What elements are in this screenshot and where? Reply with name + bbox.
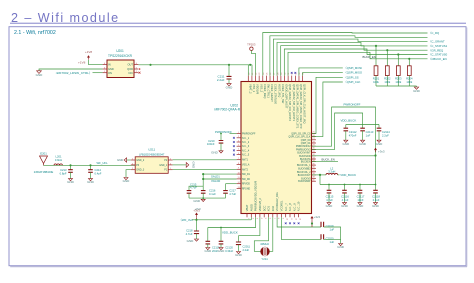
svg-text:1uF: 1uF <box>330 240 335 244</box>
wire +1V8 to IN <box>89 60 103 65</box>
label VDD_BUCK (inductor) <box>338 174 340 176</box>
svg-text:N/C: N/C <box>129 71 134 75</box>
balun U211 <box>135 157 168 174</box>
svg-text:GND_1: GND_1 <box>159 164 168 167</box>
svg-text:VDD1V8_2: VDD1V8_2 <box>258 198 262 212</box>
svg-text:GND: GND <box>108 67 114 71</box>
svg-text:〈C_RQ: 〈C_RQ <box>429 31 440 35</box>
ground GND (U201) <box>39 69 103 71</box>
svg-text:VBAT: VBAT <box>245 204 249 211</box>
ground (vcore caps) <box>339 244 343 246</box>
svg-text:QSPI_D0: QSPI_D0 <box>301 140 311 142</box>
wire SW_D0 <box>203 178 236 180</box>
svg-text:VSS_A: VSS_A <box>242 164 250 167</box>
ground GND_2 (U211) left <box>127 159 131 161</box>
ground (C214) <box>88 179 92 181</box>
svg-text:BUCK47A: BUCK47A <box>300 158 311 161</box>
svg-text:C2112: C2112 <box>349 130 357 134</box>
svg-text:+3v3: +3v3 <box>193 208 200 212</box>
VDD_BUCK upper rail <box>346 124 379 126</box>
svg-text:U211: U211 <box>148 148 155 152</box>
label BUCK_EN (pin) <box>312 161 338 163</box>
wire ON <box>93 72 103 74</box>
wire VDD_BUCK upper <box>312 113 363 149</box>
svg-text:BUCKVDD: BUCKVDD <box>299 156 311 158</box>
svg-text:VDD_BUCK: VDD_BUCK <box>340 173 356 177</box>
crystal Y211 <box>261 247 270 256</box>
svg-text:BUCKVOL_1: BUCKVOL_1 <box>297 165 311 167</box>
power flag +3v3 (buck) <box>375 150 377 153</box>
svg-text:0.4pF: 0.4pF <box>95 172 102 176</box>
svg-text:2.1 - Wifi, nrf7002: 2.1 - Wifi, nrf7002 <box>14 30 56 36</box>
svg-text:0.33uF: 0.33uF <box>225 249 233 253</box>
svg-text:RFGND: RFGND <box>242 189 251 191</box>
svg-text:IN: IN <box>108 63 111 67</box>
svg-text:BUCKVOUT: BUCKVOUT <box>298 175 311 177</box>
svg-text:N.C._3: N.C._3 <box>242 146 250 148</box>
svg-text:C216: C216 <box>209 188 216 192</box>
svg-text:Y211: Y211 <box>261 257 268 261</box>
ground (rf caps) <box>202 198 204 199</box>
svg-text:SW_D1: SW_D1 <box>242 174 251 176</box>
ground (C211) <box>228 79 230 83</box>
no-connect marks bottom pins <box>285 222 287 224</box>
svg-text:TPS22916XCKR: TPS22916XCKR <box>108 54 133 58</box>
svg-text:ANT2: ANT2 <box>242 168 249 171</box>
svg-text:SW_CTRL1: SW_CTRL1 <box>267 84 271 98</box>
svg-text:QSPI_DATA2_SPI_IO2_HOST1: QSPI_DATA2_SPI_IO2_HOST1 <box>292 84 296 122</box>
wire VBAT verticals <box>247 65 249 76</box>
svg-text:100k: 100k <box>395 80 401 84</box>
svg-text:QSPI_SS_SPI_CS: QSPI_SS_SPI_CS <box>291 133 311 135</box>
svg-text:2.2uF: 2.2uF <box>373 198 380 202</box>
svg-text:VCOREL: VCOREL <box>280 200 284 211</box>
svg-text:40MHz: 40MHz <box>260 242 269 246</box>
svg-text:GND: GND <box>337 245 345 249</box>
ground GND_1 sideways <box>173 164 187 166</box>
svg-text:C210: C210 <box>208 139 215 143</box>
wire VCOREH <box>277 217 321 227</box>
svg-text:PWRBUCKVDD_VDD1V8: PWRBUCKVDD_VDD1V8 <box>254 180 258 211</box>
svg-text:GND: GND <box>235 253 243 257</box>
svg-text:COEX_GRANT: COEX_GRANT <box>270 84 274 102</box>
svg-text:N.C._1: N.C._1 <box>242 138 250 140</box>
svg-text:4.7uF: 4.7uF <box>229 192 236 196</box>
ground (C210) <box>219 151 223 153</box>
IC U202 nRF7002 <box>241 82 312 214</box>
svg-text:C2019: C2019 <box>326 224 334 228</box>
svg-text:〈QSPI_MOSI: 〈QSPI_MOSI <box>344 66 362 70</box>
svg-text:BUCK_EN: BUCK_EN <box>322 157 335 161</box>
capacitor C2120 <box>220 227 222 229</box>
wire pin5 to C2011 <box>239 217 260 235</box>
svg-text:QSPI_D1: QSPI_D1 <box>301 143 311 145</box>
capacitor C210 <box>220 134 222 141</box>
svg-text:GND: GND <box>36 73 44 77</box>
svg-text:〈CBUCK_EN: 〈CBUCK_EN <box>429 57 447 61</box>
svg-text:C2113: C2113 <box>366 130 374 134</box>
svg-text:2 – Wifi module: 2 – Wifi module <box>11 11 120 25</box>
svg-text:PWRBUCKV2: PWRBUCKV2 <box>296 149 311 151</box>
svg-text:C2117: C2117 <box>357 195 365 199</box>
power flag +1V8 <box>88 57 90 60</box>
svg-text:XO1: XO1 <box>267 205 271 211</box>
wire U201 OUT to VBAT <box>138 64 252 66</box>
capacitor C216 <box>202 174 204 191</box>
svg-text:GND: GND <box>326 204 334 208</box>
wire PWRONOFF to pin1 <box>230 133 237 135</box>
svg-text:XO2: XO2 <box>271 205 275 211</box>
junction VBAT <box>249 64 251 66</box>
svg-text:+3v3: +3v3 <box>314 215 321 219</box>
wire SW_D1 <box>203 173 236 175</box>
svg-text:VCOREHV_DIG: VCOREHV_DIG <box>275 192 279 211</box>
ground (C2011) <box>236 252 240 254</box>
U211 pins <box>131 159 135 161</box>
svg-text:〈QSPI_MISO: 〈QSPI_MISO <box>344 71 363 75</box>
svg-text:VDD_BUCK: VDD_BUCK <box>222 231 238 235</box>
svg-text:〈QSPI_SS: 〈QSPI_SS <box>344 75 359 79</box>
svg-text:GND: GND <box>341 204 349 208</box>
svg-text:GND: GND <box>193 199 201 203</box>
svg-text:BUCKV5: BUCKV5 <box>301 178 311 180</box>
svg-text:VDD1V8: VDD1V8 <box>256 84 260 95</box>
svg-text:GND: GND <box>211 151 219 155</box>
capacitor C2011 <box>238 236 240 242</box>
svg-text:BUCKVBB2: BUCKVBB2 <box>298 168 311 170</box>
svg-text:OUT: OUT <box>128 63 134 67</box>
svg-text:QSPI_DATA0_SPI_MOSI_COEX_ST0: QSPI_DATA0_SPI_MOSI_COEX_ST0 <box>299 84 303 129</box>
svg-text:+3v3: +3v3 <box>378 150 385 154</box>
power flag +3v3 (wf) <box>196 215 198 218</box>
lower buck caps C2115-C2118 <box>328 185 330 191</box>
svg-text:ANT1: ANT1 <box>242 159 249 162</box>
svg-text:IOVDD_QSPI_HOST: IOVDD_QSPI_HOST <box>285 84 289 109</box>
svg-text:2.2uF: 2.2uF <box>217 78 225 82</box>
wire VCOREL <box>281 217 321 239</box>
svg-text:SW_D0: SW_D0 <box>242 179 251 181</box>
svg-text:N.C._2: N.C._2 <box>242 142 250 144</box>
svg-text:C2116: C2116 <box>341 195 349 199</box>
svg-text:2.2uF: 2.2uF <box>243 248 250 252</box>
top signal wires <box>263 33 428 76</box>
svg-text:GND: GND <box>87 180 95 184</box>
svg-text:COEX_REQ: COEX_REQ <box>263 84 267 98</box>
svg-text:GND: GND <box>372 204 380 208</box>
svg-text:N.C._4: N.C._4 <box>242 150 250 152</box>
title underline <box>10 22 466 24</box>
svg-text:GND: GND <box>67 180 75 184</box>
svg-text:COEX_ST1_SW: COEX_ST1_SW <box>281 84 285 104</box>
U202 top pins <box>247 76 249 82</box>
svg-text:E201: E201 <box>40 152 47 156</box>
svg-text:GND: GND <box>226 85 234 89</box>
capacitor C214 <box>89 164 91 166</box>
wire BUCKVDD to +3v3 <box>312 155 376 157</box>
svg-text:VDD_BUCK: VDD_BUCK <box>341 119 357 123</box>
svg-text:COEX_STATUS0: COEX_STATUS0 <box>274 84 278 105</box>
antenna E201 <box>40 156 48 166</box>
upper buck caps C2112-C2114 <box>345 125 347 129</box>
svg-text:HOST_IRQ: HOST_IRQ <box>277 84 281 97</box>
capacitor C211 <box>228 65 230 77</box>
svg-text:+1V8: +1V8 <box>85 50 92 54</box>
svg-text:U201: U201 <box>116 49 124 53</box>
svg-text:4.7uF: 4.7uF <box>342 198 349 202</box>
svg-text:VBAT_2: VBAT_2 <box>248 84 252 94</box>
wire C2019 right <box>324 227 341 244</box>
svg-text:nRF7002-QFAA-R: nRF7002-QFAA-R <box>214 107 241 111</box>
ground (C213) <box>68 179 72 181</box>
wire to bottom pin2 <box>250 217 252 220</box>
svg-text:VSS_1: VSS_1 <box>252 84 256 93</box>
svg-text:BUCKVOL_2: BUCKVOL_2 <box>297 172 311 174</box>
ground GND_3 (U211) <box>126 170 131 178</box>
svg-text:GND: GND <box>117 158 123 162</box>
svg-text:4.7uF: 4.7uF <box>186 232 193 236</box>
svg-text:3.3uH: 3.3uH <box>328 169 335 173</box>
svg-text:GND: GND <box>187 239 195 243</box>
svg-text:C213: C213 <box>60 168 67 172</box>
svg-text:GND: GND <box>357 204 365 208</box>
svg-text:GND: GND <box>191 162 195 170</box>
svg-text:PWRONOFF: PWRONOFF <box>242 134 256 136</box>
QSPI wires <box>299 68 343 76</box>
svg-text:100k: 100k <box>373 80 379 84</box>
svg-text:C217: C217 <box>229 188 236 192</box>
svg-text:GND_3: GND_3 <box>136 169 145 172</box>
svg-text:PWRONOFF2: PWRONOFF2 <box>296 146 311 148</box>
wire +3v3 down to cap rail <box>375 156 377 185</box>
svg-text:PWRONOFF: PWRONOFF <box>344 103 361 107</box>
svg-text:GND: GND <box>342 142 350 146</box>
capacitor C2119 <box>207 228 209 242</box>
svg-text:0.1uF: 0.1uF <box>209 192 216 196</box>
no-connect N/C (U201) <box>139 72 141 74</box>
svg-text:C218: C218 <box>186 229 193 233</box>
svg-text:GND: GND <box>204 249 212 253</box>
ground (C2120) <box>219 248 223 250</box>
U202 right pins <box>312 132 316 134</box>
svg-text:QSPI_DATA1_SPI_MISO_COEX_ST1: QSPI_DATA1_SPI_MISO_COEX_ST1 <box>295 84 299 129</box>
wire C2020 right <box>324 238 341 240</box>
svg-text:1uF: 1uF <box>330 228 335 232</box>
svg-text:N.C._10: N.C._10 <box>297 201 301 211</box>
wire +3v3 stem <box>196 217 198 220</box>
svg-text:QSPI_CLK_SPI_CLK: QSPI_CLK_SPI_CLK <box>289 137 311 139</box>
wire XO2 to crystal <box>269 217 272 251</box>
svg-text:N.C._8: N.C._8 <box>288 203 292 212</box>
svg-text:BUCKVBAT: BUCKVBAT <box>298 180 311 183</box>
capacitor C213 <box>69 164 71 166</box>
U202 left pins <box>237 133 241 135</box>
svg-text:nRF7002_LDSW_CTRL〉: nRF7002_LDSW_CTRL〉 <box>56 71 92 75</box>
wire antenna <box>44 164 136 166</box>
svg-text:470nF: 470nF <box>349 133 357 137</box>
svg-text:4.7uF: 4.7uF <box>326 198 333 202</box>
svg-text:N.C._5: N.C._5 <box>242 155 250 157</box>
svg-text:BUCKEN: BUCKEN <box>301 162 311 164</box>
wire rail 227.5 <box>208 217 256 227</box>
svg-text:QOD: QOD <box>127 67 133 71</box>
svg-text:C2114: C2114 <box>382 130 390 134</box>
ground (resistors) <box>414 87 418 89</box>
svg-text:100k: 100k <box>406 80 412 84</box>
svg-text:C2118: C2118 <box>372 195 380 199</box>
resistor ground rail <box>376 85 417 87</box>
svg-text:PALD0: PALD0 <box>212 179 221 183</box>
svg-text:BUCK_EN: BUCK_EN <box>363 55 376 59</box>
wire PWRONOFF net <box>312 107 376 155</box>
capacitor C217 <box>226 183 237 185</box>
svg-text:N.C._7: N.C._7 <box>284 203 288 212</box>
buck cap rail <box>319 175 321 185</box>
svg-text:RFVDD: RFVDD <box>242 184 250 186</box>
svg-text:GND: GND <box>376 142 384 146</box>
ground (C2119) <box>206 248 210 250</box>
svg-text:VSS_2: VSS_2 <box>259 84 263 93</box>
svg-text:WF_UFL: WF_UFL <box>97 161 109 165</box>
svg-text:C214: C214 <box>95 168 102 172</box>
svg-text:N.C._9: N.C._9 <box>292 203 296 212</box>
svg-text:10nF: 10nF <box>357 198 363 202</box>
ground (C218) <box>194 239 198 241</box>
svg-text:3.9nH: 3.9nH <box>55 158 62 162</box>
capacitor C2019 <box>321 222 324 227</box>
rf cap ground rail <box>189 197 226 199</box>
svg-text:GND: GND <box>123 179 131 183</box>
wire +3v3 rail <box>192 219 251 221</box>
svg-text:GND: GND <box>359 142 367 146</box>
svg-text:GND: GND <box>413 89 421 93</box>
svg-text:QSPI_DATA3_SPI_IO3_HOST2: QSPI_DATA3_SPI_IO3_HOST2 <box>288 84 292 122</box>
svg-text:C2115: C2115 <box>326 195 334 199</box>
resistors R201-R204 <box>375 45 377 47</box>
svg-text:QSPI_CLK_SPI_CLK_HOST_IRQ: QSPI_CLK_SPI_CLK_HOST_IRQ <box>303 84 307 124</box>
svg-text:2.2uF: 2.2uF <box>382 133 389 137</box>
load switch U201 <box>107 60 134 78</box>
svg-text:4.7uF: 4.7uF <box>190 186 197 190</box>
svg-text:100nF: 100nF <box>207 142 215 146</box>
svg-text:2450AT18B100E: 2450AT18B100E <box>34 170 54 174</box>
wire P2 to ANT1 <box>173 159 237 161</box>
capacitor C215 <box>189 186 203 190</box>
svg-text:BUCKVVINT: BUCKVVINT <box>297 153 311 155</box>
capacitor C2020 <box>321 234 324 239</box>
svg-text:〈QSPI_CLK: 〈QSPI_CLK <box>344 80 361 84</box>
wire P1 to ANT2 <box>173 168 237 170</box>
wire XO1 to crystal <box>254 217 268 251</box>
svg-text:0.8pF: 0.8pF <box>60 172 67 176</box>
svg-text:〈WF_3v3: 〈WF_3v3 <box>179 218 193 222</box>
power flag +3v3 (vcore) <box>311 218 313 221</box>
U201 pins <box>103 64 107 66</box>
inductor L202 <box>312 174 326 176</box>
U202 bottom pins <box>246 214 248 218</box>
svg-text:100k: 100k <box>384 80 390 84</box>
svg-text:GND_2: GND_2 <box>136 159 145 162</box>
svg-text:ON: ON <box>108 71 112 75</box>
svg-text:C2020: C2020 <box>326 236 334 240</box>
svg-text:1uF: 1uF <box>366 133 371 137</box>
svg-text:LFB182G45BG9D947: LFB182G45BG9D947 <box>139 152 165 156</box>
svg-text:+1V8: +1V8 <box>78 60 86 64</box>
svg-text:DCC: DCC <box>262 205 266 211</box>
svg-text:SALD1: SALD1 <box>211 174 220 178</box>
no-connect marks top pins <box>291 72 293 74</box>
svg-text:GND: GND <box>218 249 226 253</box>
svg-text:TP203: TP203 <box>247 43 256 47</box>
capacitor C218 <box>196 220 198 231</box>
svg-text:AVDD: AVDD <box>249 204 253 211</box>
